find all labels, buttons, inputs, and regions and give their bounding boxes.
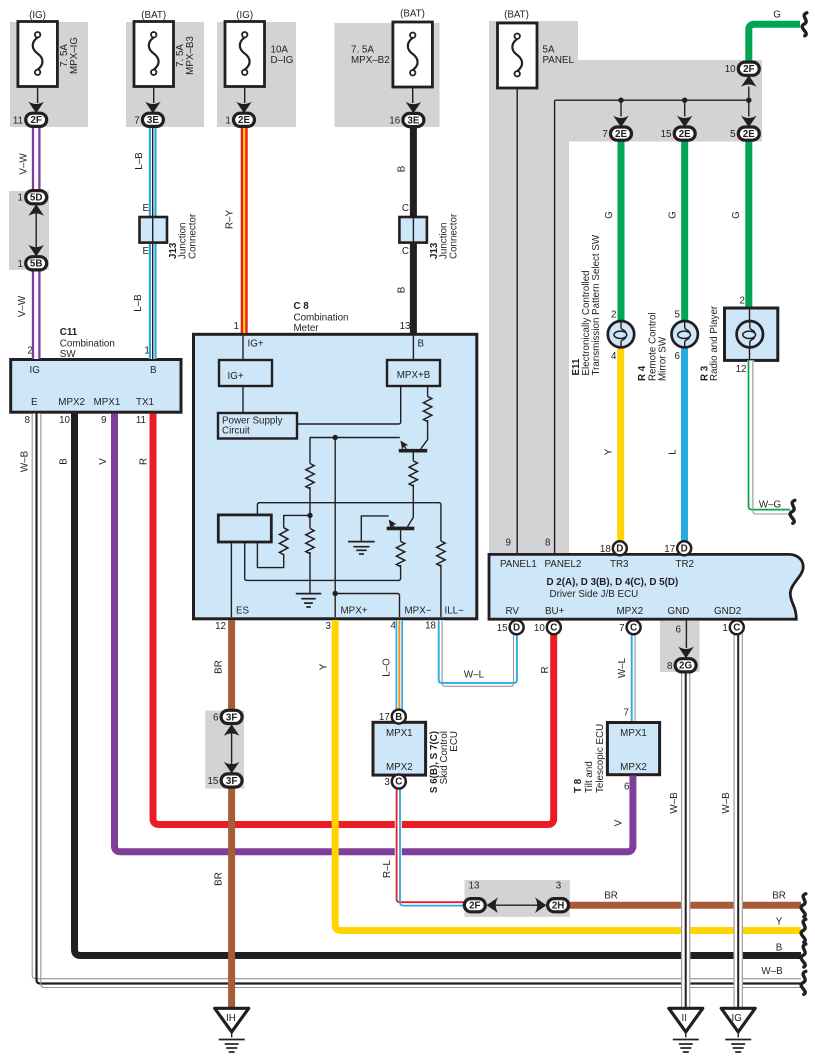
connector 6 3F (213, 710, 242, 723)
connector 1 2E (225, 113, 254, 126)
connector 18 D (600, 541, 627, 555)
connector 1 5D (18, 191, 47, 204)
svg-text:Telescopic ECU: Telescopic ECU (595, 724, 606, 793)
combination meter C8 box (194, 334, 477, 619)
svg-text:BR: BR (772, 891, 786, 902)
svg-text:8: 8 (25, 415, 31, 426)
svg-text:18: 18 (425, 621, 436, 632)
J/B ECU labels (500, 559, 741, 617)
svg-text:BU+: BU+ (545, 606, 565, 617)
resistor ILL- (437, 541, 445, 566)
C11 pin labels (30, 365, 158, 408)
C8 pin labels (236, 606, 464, 617)
gray block fuse MPX-B2 (335, 23, 440, 127)
C8 IG+ block (219, 360, 272, 386)
wire G 5 2E to R3 (745, 140, 752, 306)
svg-text:3: 3 (326, 621, 332, 632)
svg-text:11: 11 (136, 415, 146, 426)
svg-text:2E: 2E (679, 129, 691, 140)
wire BR 2H to other page (569, 902, 802, 909)
arrows between 5D and 5B (28, 204, 44, 256)
wire G 15 2E to R4 (681, 140, 688, 321)
svg-text:1: 1 (18, 193, 23, 204)
svg-text:SW: SW (60, 349, 77, 360)
svg-text:6: 6 (213, 712, 219, 723)
svg-text:BR: BR (214, 660, 225, 674)
wire Q2 emitter resistor to internal block (245, 542, 401, 580)
squiggle W-G (790, 500, 795, 523)
svg-text:D: D (513, 623, 520, 634)
wire W-L C8 ILL- to J/B RV (439, 620, 517, 686)
svg-text:B: B (395, 712, 402, 723)
ground inside C8 at Q2 (348, 542, 375, 554)
svg-text:Connector: Connector (449, 213, 460, 259)
svg-text:13: 13 (400, 321, 411, 332)
svg-text:5: 5 (730, 129, 736, 140)
svg-text:15: 15 (661, 129, 672, 140)
gray block connectors 2F/2H (465, 880, 570, 917)
svg-text:C: C (402, 246, 409, 257)
svg-text:MPX–IG: MPX–IG (69, 37, 80, 74)
wire arrow bus to 7 2E (613, 100, 629, 127)
svg-text:R 4: R 4 (637, 365, 648, 381)
wire B C11 MPX2 to other page (75, 414, 802, 956)
svg-text:(IG): (IG) (236, 10, 253, 21)
svg-text:5B: 5B (30, 259, 43, 270)
svg-text:3E: 3E (407, 115, 419, 126)
wire R-L skid control to 13 2F (397, 788, 465, 906)
connector 17 D (664, 541, 691, 555)
svg-text:3E: 3E (147, 115, 159, 126)
svg-text:C: C (550, 623, 557, 634)
node bus dot 3 (746, 98, 751, 103)
wire resistor to transistor Q2 collector (408, 484, 414, 526)
connector 16 3E (389, 113, 424, 126)
svg-text:E: E (142, 246, 149, 257)
svg-text:MPX–B3: MPX–B3 (185, 36, 196, 75)
svg-text:Tilt and: Tilt and (584, 761, 595, 793)
C8 label (294, 301, 349, 334)
svg-text:GND2: GND2 (714, 606, 741, 617)
svg-text:7: 7 (619, 623, 624, 634)
svg-text:17: 17 (664, 544, 675, 555)
fuse MPX-IG (IG) 7.5A (18, 10, 80, 87)
wire arrow J/B GND to 2G (676, 619, 694, 658)
C8 MPX+B block (387, 360, 440, 386)
svg-text:C: C (402, 203, 409, 214)
gray block connectors 5D/5B (9, 191, 49, 270)
svg-text:C11: C11 (60, 327, 78, 338)
svg-text:G: G (668, 211, 679, 219)
squiggle B (801, 944, 806, 967)
connector 15 2E (661, 127, 696, 140)
svg-text:5D: 5D (30, 193, 43, 204)
C11 label (60, 327, 115, 360)
wire L-B 3E to C11 B via J13 (150, 126, 156, 359)
bulb R4 (672, 321, 698, 347)
junction connector J13 right (399, 217, 427, 243)
E11 pin numbers (611, 309, 617, 362)
svg-text:10: 10 (59, 415, 70, 426)
svg-text:G: G (604, 211, 615, 219)
svg-text:10: 10 (534, 623, 545, 634)
wire resistor to transistor Q1 collector (421, 420, 428, 449)
svg-text:GND: GND (668, 606, 690, 617)
R3 pin numbers (736, 296, 747, 376)
svg-text:IG: IG (30, 365, 40, 376)
squiggle BR (801, 894, 806, 917)
svg-text:V–W: V–W (17, 295, 28, 317)
svg-text:MPX+B: MPX+B (397, 370, 431, 381)
gray block fuse D-IG (217, 22, 296, 127)
arrows between 3F connectors (224, 724, 240, 773)
C8 pin numbers (215, 621, 436, 632)
svg-text:MPX–B2: MPX–B2 (351, 55, 390, 66)
svg-text:2G: 2G (679, 661, 692, 672)
svg-text:Y: Y (319, 663, 330, 670)
svg-text:Radio and Player: Radio and Player (709, 305, 720, 381)
svg-text:BR: BR (604, 891, 618, 902)
svg-text:6: 6 (676, 624, 682, 635)
wire fuse D-IG to connector 2E (236, 87, 252, 113)
gray block connector 2G (660, 621, 700, 672)
svg-text:V–W: V–W (19, 153, 30, 175)
svg-text:2H: 2H (552, 901, 565, 912)
squiggle G top right (802, 13, 807, 36)
svg-text:MPX2: MPX2 (386, 762, 413, 773)
wire W-B C11 E to other page (32, 414, 801, 988)
wire ILL- resistor to pin 18 (440, 565, 442, 618)
svg-text:R: R (540, 666, 551, 673)
wire Ra top to node (284, 515, 310, 527)
tilt and telescopic ECU box T8 (573, 723, 660, 794)
svg-text:B: B (776, 943, 783, 954)
wire Y C8 MPX+ to other page (335, 620, 801, 931)
wire BR C8 ES to 3F (228, 620, 235, 711)
wire W-G R3 to other page (749, 360, 791, 514)
svg-text:BR: BR (214, 872, 225, 886)
wire internal block to resistor Ra (257, 542, 283, 568)
svg-text:W–B: W–B (761, 966, 783, 977)
wire fuse MPX-IG to connector 2F (28, 87, 44, 113)
svg-text:13: 13 (469, 881, 480, 892)
svg-text:Circuit: Circuit (222, 426, 250, 437)
gray block connectors 3F/3F (205, 711, 244, 789)
connector 15 D (497, 620, 524, 634)
wire internal block to ES pin 12 (230, 542, 232, 617)
svg-text:PANEL1: PANEL1 (500, 559, 537, 570)
svg-text:Combination: Combination (294, 312, 349, 323)
svg-text:ECU: ECU (449, 731, 460, 752)
wire arrow bus to 5 2E (741, 100, 757, 127)
R4 mirror switch label (637, 312, 669, 381)
svg-text:5A: 5A (543, 45, 555, 56)
svg-text:7: 7 (602, 129, 607, 140)
wire bus to 2E connectors (555, 99, 749, 101)
ground II (669, 1008, 703, 1052)
svg-text:MPX1: MPX1 (94, 397, 121, 408)
svg-text:3: 3 (384, 777, 390, 788)
gray band PANEL feed (489, 21, 762, 554)
connector 5 2E (730, 127, 759, 140)
svg-text:T 8: T 8 (573, 778, 584, 793)
svg-text:R: R (139, 458, 150, 465)
node bus dot 1 (618, 98, 623, 103)
wire PANEL2 feed to J/B pin 8 (554, 100, 556, 554)
svg-text:8: 8 (545, 538, 551, 549)
svg-text:B: B (418, 339, 425, 350)
svg-text:3F: 3F (226, 712, 237, 723)
svg-text:G: G (773, 10, 781, 21)
wire B 3E to C8 pin 13 via J13 (410, 126, 417, 333)
C8 power supply circuit block (218, 413, 297, 439)
svg-text:MPX1: MPX1 (620, 728, 647, 739)
svg-text:V: V (98, 458, 109, 465)
J13 left labels (142, 203, 198, 259)
wire G 7 2E to E11 (618, 140, 625, 321)
svg-text:C 8: C 8 (294, 301, 310, 312)
svg-text:Connector: Connector (188, 213, 199, 259)
wire divider chain vertical (309, 438, 311, 594)
svg-text:Transmission Pattern Select SW: Transmission Pattern Select SW (591, 234, 602, 375)
svg-text:IG+: IG+ (248, 339, 264, 350)
svg-text:L–B: L–B (133, 294, 144, 312)
wire labels horizontal (464, 500, 786, 978)
connector 7 2E (602, 127, 631, 140)
svg-text:C: C (733, 623, 740, 634)
svg-text:1: 1 (18, 259, 23, 270)
svg-text:Meter: Meter (294, 323, 320, 334)
svg-text:3F: 3F (226, 776, 237, 787)
resistor Ra (280, 528, 288, 555)
svg-text:ILL−: ILL− (445, 606, 465, 617)
svg-text:8: 8 (667, 661, 673, 672)
T8 pin numbers (624, 708, 631, 793)
resistor R2 (306, 529, 314, 554)
svg-text:Combination: Combination (60, 338, 115, 349)
transistor Q2 (386, 517, 415, 541)
svg-text:TR3: TR3 (610, 559, 629, 570)
svg-text:W–L: W–L (464, 670, 485, 681)
ground IH (215, 1008, 249, 1052)
wire V-W 5B to C11 IG (33, 270, 39, 359)
svg-text:TR2: TR2 (676, 559, 695, 570)
svg-text:Y: Y (604, 448, 615, 455)
svg-text:(BAT): (BAT) (141, 10, 166, 21)
combination switch C11 box (11, 360, 181, 413)
svg-text:1: 1 (225, 115, 230, 126)
svg-text:6: 6 (675, 351, 681, 362)
gray block fuse MPX-B3 (126, 22, 204, 127)
wire arrow bus up to 10 2F (741, 75, 757, 100)
svg-text:4: 4 (611, 351, 617, 362)
svg-text:15: 15 (207, 776, 218, 787)
connector 13 2F (464, 881, 485, 912)
ground IG (721, 1008, 755, 1052)
wire L-O C8 MPX- to skid control (396, 620, 402, 710)
svg-text:MPX2: MPX2 (620, 762, 647, 773)
svg-text:2: 2 (611, 309, 616, 320)
svg-text:7: 7 (134, 115, 139, 126)
svg-text:1: 1 (722, 623, 727, 634)
wire V C11 MPX1 to T8 MPX2 (115, 414, 633, 852)
svg-text:W–B: W–B (669, 792, 680, 814)
connector 15 3F (207, 774, 242, 787)
svg-text:11: 11 (13, 115, 23, 126)
wire MPX+B to resistor (427, 386, 429, 396)
fuse MPX-B3 (BAT) 7.5A (134, 10, 196, 87)
resistor Q2 emitter (396, 541, 404, 566)
svg-text:5: 5 (675, 309, 681, 320)
wire fuse PANEL to J/B pin 9 PANEL1 (516, 88, 518, 554)
node dot MPX+ top (333, 435, 338, 440)
wire arrow bus to 15 2E (677, 100, 693, 127)
svg-text:W–L: W–L (617, 657, 628, 678)
svg-text:ES: ES (236, 606, 250, 617)
fuse D-IG (IG) 10A (225, 10, 293, 87)
wire W-B J/B GND 2G to ground II (682, 672, 690, 1008)
svg-text:MPX−: MPX− (405, 606, 432, 617)
svg-text:10A: 10A (271, 45, 289, 56)
svg-text:2: 2 (740, 296, 745, 307)
wire L R4 to J/B TR2 (681, 347, 688, 542)
svg-text:2E: 2E (743, 129, 755, 140)
svg-text:7. 5A: 7. 5A (351, 45, 374, 56)
squiggle W-B (801, 971, 806, 994)
svg-text:W–G: W–G (759, 500, 781, 511)
svg-text:Mirror SW: Mirror SW (658, 336, 669, 381)
svg-text:V: V (614, 819, 625, 826)
bulb R3 (737, 321, 763, 347)
svg-text:D: D (681, 544, 688, 555)
skid control ECU box S6 S7 (373, 722, 460, 793)
C8 pin 13 B lead (400, 321, 425, 360)
svg-text:II: II (682, 1013, 687, 1024)
svg-text:TX1: TX1 (136, 397, 154, 408)
svg-text:1: 1 (234, 321, 239, 332)
svg-text:L–O: L–O (382, 658, 393, 677)
wire Q2 base to ground (361, 516, 388, 542)
connector 8 2G (667, 659, 696, 672)
radio and player R3 box (700, 305, 778, 381)
svg-text:(BAT): (BAT) (504, 10, 529, 21)
E11 select switch label (571, 234, 602, 375)
svg-text:MPX1: MPX1 (386, 728, 413, 739)
connector 3 C skid (384, 775, 405, 789)
wire MPX+B to power supply circuit (297, 386, 401, 424)
node bus dot 2 (682, 98, 687, 103)
svg-text:PANEL2: PANEL2 (545, 559, 582, 570)
wire fuse MPX-B3 to connector 3E (145, 87, 161, 113)
svg-text:W–B: W–B (20, 450, 31, 472)
svg-text:RV: RV (506, 606, 520, 617)
svg-text:2F: 2F (743, 64, 754, 75)
wire internal block top to bias rail (257, 503, 441, 541)
svg-text:B: B (397, 286, 408, 293)
svg-text:6: 6 (624, 782, 630, 793)
connector 17 B skid (379, 710, 406, 724)
svg-text:IG: IG (732, 1013, 742, 1024)
wire MPX+ vertical (334, 438, 336, 618)
svg-text:16: 16 (389, 116, 400, 127)
R4 pin numbers (675, 309, 681, 362)
svg-text:L: L (668, 449, 679, 455)
svg-text:B: B (397, 165, 408, 172)
wire Q1 base node (310, 437, 400, 439)
svg-text:Y: Y (776, 917, 783, 928)
svg-text:Driver Side J/B ECU: Driver Side J/B ECU (550, 589, 639, 600)
svg-text:MPX2: MPX2 (58, 397, 85, 408)
wire W-L J/B MPX2 to T8 MPX1 (632, 634, 635, 721)
fuse MPX-B2 (BAT) 7.5A (351, 9, 432, 88)
svg-text:7: 7 (624, 708, 629, 719)
connector 3 2H (548, 881, 569, 912)
svg-text:2F: 2F (30, 115, 41, 126)
svg-text:(BAT): (BAT) (400, 9, 425, 20)
svg-text:3: 3 (556, 881, 562, 892)
svg-text:12: 12 (215, 621, 226, 632)
svg-text:R–Y: R–Y (225, 210, 236, 230)
svg-text:2F: 2F (469, 901, 480, 912)
wire MPX- branch (335, 594, 399, 618)
svg-text:E: E (142, 203, 149, 214)
svg-text:W–B: W–B (721, 792, 732, 814)
svg-text:L–B: L–B (134, 152, 145, 170)
connector 10 2F (725, 62, 760, 75)
svg-text:MPX+: MPX+ (341, 606, 368, 617)
resistor R1 (306, 464, 314, 489)
connector 7 3E (134, 113, 163, 126)
svg-text:18: 18 (600, 544, 611, 555)
transistor Q1 (397, 438, 427, 461)
wire labels rotated (17, 152, 742, 886)
svg-text:2E: 2E (238, 115, 250, 126)
svg-text:B: B (150, 365, 157, 376)
svg-text:D–IG: D–IG (271, 55, 294, 66)
wire W-B J/B GND2 to ground IG (734, 634, 742, 1008)
svg-text:MPX2: MPX2 (617, 606, 644, 617)
wire BR 3F to ground IH (228, 787, 235, 1008)
driver side J/B ECU box (489, 554, 803, 619)
wire V-W fuse 2F to 5D (33, 126, 39, 191)
wire fuse MPX-B2 to connector 3E (406, 88, 422, 114)
wire R C11 TX1 to J/B BU+ (153, 414, 554, 825)
connector 11 2F (13, 113, 47, 126)
node dot MPX+ bottom (333, 591, 338, 596)
svg-text:B: B (59, 458, 70, 465)
svg-text:R–L: R–L (382, 859, 393, 878)
node dot divider (307, 513, 312, 518)
bulb E11 (608, 321, 634, 347)
svg-text:C: C (395, 777, 402, 788)
gray block fuse MPX-IG (10, 22, 88, 127)
svg-text:E: E (31, 397, 38, 408)
ground inside C8 at divider (296, 594, 321, 607)
resistor collector Q1 (423, 396, 431, 421)
svg-text:PANEL: PANEL (543, 55, 575, 66)
svg-text:(IG): (IG) (29, 10, 46, 21)
svg-text:9: 9 (101, 415, 106, 426)
wire IG+ block to power supply circuit (242, 386, 244, 413)
squiggle Y (801, 919, 806, 942)
J/B top pin numbers (506, 538, 552, 549)
connector 1 C (722, 620, 743, 634)
wire R-Y 2E to C8 pin 1 (241, 126, 248, 333)
svg-text:17: 17 (379, 712, 390, 723)
svg-text:D: D (616, 544, 623, 555)
junction connector J13 left (140, 217, 168, 243)
wire G to 10 2F from other page (749, 24, 800, 62)
